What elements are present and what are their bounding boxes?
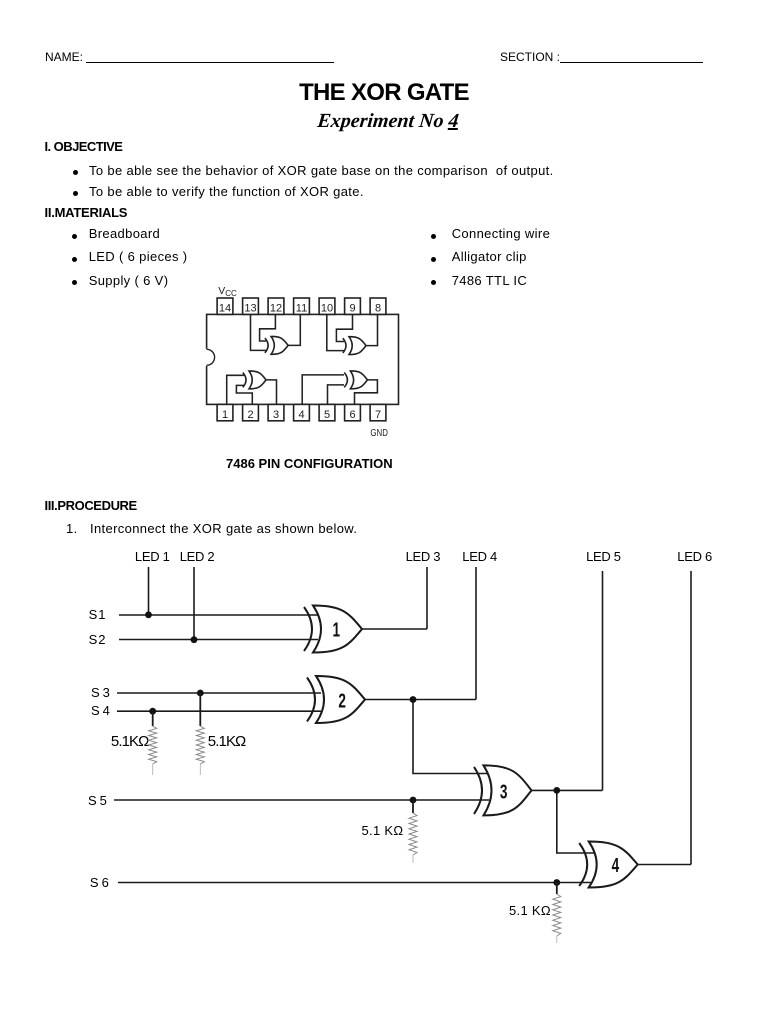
IC XOR gate C (pins 1,2 -> 3) — [243, 371, 266, 389]
wire pin1 to gate C input — [227, 375, 244, 404]
IC pin-1 index notch — [205, 349, 215, 366]
objective bullet 2 — [73, 191, 78, 196]
wire gate3 output to gate4 input — [557, 790, 594, 853]
node S5/R3 junction — [410, 797, 417, 804]
node S3/R2 junction — [197, 690, 204, 697]
wire gate2 output to LED4 — [365, 699, 476, 701]
IC XOR gate A (pins 13,12 -> 11) — [265, 336, 288, 354]
procedure step 1 — [66, 521, 78, 536]
wire pin9 to gate B input — [336, 314, 352, 341]
node S2/LED2 junction — [191, 636, 198, 643]
svg-text:2: 2 — [247, 409, 253, 421]
wire pin2 to gate C input — [236, 385, 252, 404]
wire S1 input — [119, 614, 318, 616]
wire S3 input — [117, 692, 321, 694]
resistor R3 5.1 K ohm — [409, 800, 417, 863]
svg-text:3: 3 — [500, 781, 508, 803]
section III heading — [45, 498, 137, 513]
LED 6 wire — [690, 571, 692, 865]
LED 1 wire — [148, 567, 150, 615]
svg-text:14: 14 — [219, 303, 231, 315]
pin 11 — [294, 298, 310, 315]
pin 2 — [243, 404, 259, 421]
wire gate1 output to LED3 — [362, 628, 427, 630]
resistor value labels — [111, 733, 149, 750]
node gate3 output junction — [553, 787, 560, 794]
IC XOR gate B (pins 10,9 -> 8) — [343, 337, 366, 355]
svg-text:4: 4 — [298, 409, 304, 421]
wire pin4 to gate D input — [302, 375, 344, 405]
resistor R4 5.1 K ohm — [553, 883, 561, 944]
node S4/R1 junction — [149, 708, 156, 715]
pin 14 — [217, 298, 233, 315]
wire gate4 output to LED6 — [638, 864, 691, 866]
svg-text:8: 8 — [375, 303, 381, 315]
resistor R2 5.1K ohm — [196, 693, 204, 775]
LED 2 wire — [193, 567, 195, 640]
pin 9 — [345, 298, 361, 315]
pin 4 — [294, 404, 310, 421]
svg-text:1: 1 — [333, 619, 341, 641]
wire pin10 to gate B input — [327, 314, 344, 350]
svg-text:3: 3 — [273, 409, 279, 421]
wire S4 input — [117, 710, 321, 712]
pin 12 — [268, 298, 284, 315]
objective bullet 1 — [73, 170, 78, 175]
XOR gate 1 — [304, 605, 362, 652]
svg-text:11: 11 — [296, 303, 307, 315]
pin 5 — [319, 404, 335, 421]
wire gate B output to pin8 — [366, 314, 378, 345]
LED 3 wire — [426, 567, 428, 629]
svg-text:5: 5 — [324, 409, 330, 421]
XOR gate 4 — [579, 841, 638, 887]
svg-text:2: 2 — [338, 690, 346, 712]
caption 7486 PIN CONFIGURATION — [226, 456, 393, 471]
LED 4 wire — [475, 567, 477, 700]
NAME field — [45, 50, 83, 64]
S labels — [89, 607, 107, 622]
XOR gate 3 — [474, 765, 532, 815]
wire pin5 to gate D input — [328, 385, 345, 405]
svg-text:7: 7 — [375, 409, 381, 421]
pin 7 — [370, 404, 386, 421]
wire S5 input — [114, 799, 489, 801]
LED labels — [135, 549, 170, 564]
section II heading — [45, 205, 128, 220]
LED 5 wire — [602, 571, 604, 790]
svg-text:GND: GND — [370, 427, 388, 439]
subtitle Experiment No 4 — [0, 110, 768, 133]
wire pin12 to gate A input — [260, 314, 276, 341]
material bullets right — [431, 234, 436, 239]
pin 8 — [370, 298, 386, 315]
wire gate D output to pin6 — [355, 380, 378, 405]
pin 10 — [319, 298, 335, 315]
wire gate A output to pin11 — [288, 314, 300, 345]
wire S6 input — [118, 882, 594, 884]
IC XOR gate D (pins 4,5 -> 6) — [344, 371, 367, 389]
svg-text:4: 4 — [612, 854, 620, 876]
section I heading — [45, 139, 123, 154]
wire gate C output to pin3 — [266, 380, 277, 405]
node S6/R4 junction — [553, 879, 560, 886]
svg-text:10: 10 — [321, 303, 333, 315]
svg-text:6: 6 — [349, 409, 355, 421]
SECTION field — [500, 50, 560, 64]
resistor R1 5.1K ohm — [149, 711, 157, 775]
title — [0, 79, 768, 107]
wire gate2 output to gate3 input — [413, 700, 489, 774]
svg-text:VCC: VCC — [218, 285, 237, 298]
pin 3 — [268, 404, 284, 421]
svg-text:9: 9 — [349, 303, 355, 315]
wire gate3 output to LED5 — [532, 789, 603, 791]
node S1/LED1 junction — [145, 611, 152, 618]
wire S2 input — [119, 639, 318, 641]
wire pin13 to gate A input — [251, 314, 267, 350]
node gate2 output junction — [410, 696, 417, 703]
material bullets left — [72, 234, 77, 239]
pin 13 — [243, 298, 259, 315]
pin 1 — [217, 404, 233, 421]
XOR gate 2 — [307, 676, 365, 723]
pin 6 — [345, 404, 361, 421]
svg-text:1: 1 — [222, 409, 228, 421]
svg-text:12: 12 — [270, 303, 282, 315]
svg-text:13: 13 — [244, 303, 256, 315]
IC 7486 body — [207, 314, 399, 404]
